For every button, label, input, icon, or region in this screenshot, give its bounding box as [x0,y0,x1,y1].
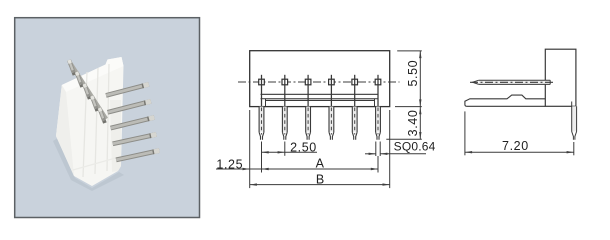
front pin 6 shank [377,75,379,107]
front pin 2 below body [282,107,287,140]
svg-text:7.20: 7.20 [502,139,529,153]
dimension A [262,156,379,170]
photo pin 2 [108,101,151,112]
svg-text:3.40: 3.40 [406,110,420,137]
pin square 4 [329,79,335,85]
connector shadow (photo) [53,138,124,191]
front pin 4 shank [330,75,332,107]
svg-text:SQ0.64: SQ0.64 [394,139,436,153]
svg-text:5.50: 5.50 [406,60,420,87]
dimension 3.40 [386,107,422,140]
side view vertical pin [572,102,577,140]
front pin 6 below body [376,107,381,140]
side view horizontal pin [470,80,554,84]
side view housing [545,49,576,106]
front view body [250,51,390,107]
pin square 6 [375,79,381,85]
dimension 7.20 [465,111,574,155]
front pin 2 shank [284,75,286,107]
svg-text:1.25: 1.25 [216,158,243,172]
side view base profile [465,95,545,106]
front pin 4 below body [329,107,334,140]
photo frame [15,18,200,218]
photo pin 3 [111,117,155,128]
pin square 2 [282,79,288,85]
front pin 3 shank [307,75,309,107]
photo pin 4 [113,134,157,143]
photo pin 5 [116,151,159,160]
svg-text:2.50: 2.50 [290,141,317,155]
svg-text:B: B [316,172,324,186]
dimension B [250,172,390,186]
pin square 5 [352,79,358,85]
extension lines bottom [250,110,390,188]
dimension 5.50 [395,51,422,107]
pin square 3 [305,79,311,85]
photo pin 1 [106,84,149,95]
center line (front view) [238,81,400,83]
connector body (photo) [56,57,124,186]
label SQ0.64 [365,139,436,156]
front pin 5 below body [352,107,357,140]
svg-text:A: A [316,156,325,170]
dimension 1.25 [216,158,262,172]
pin square 1 [259,79,265,85]
front pin 5 shank [354,75,356,107]
front body inner ledge [261,94,379,106]
pin tails (photo) [69,60,106,123]
dimension 2.50 [262,141,318,155]
front pin 1 shank [261,75,263,107]
front pin 1 below body [259,107,264,140]
front pin 3 below body [306,107,311,140]
